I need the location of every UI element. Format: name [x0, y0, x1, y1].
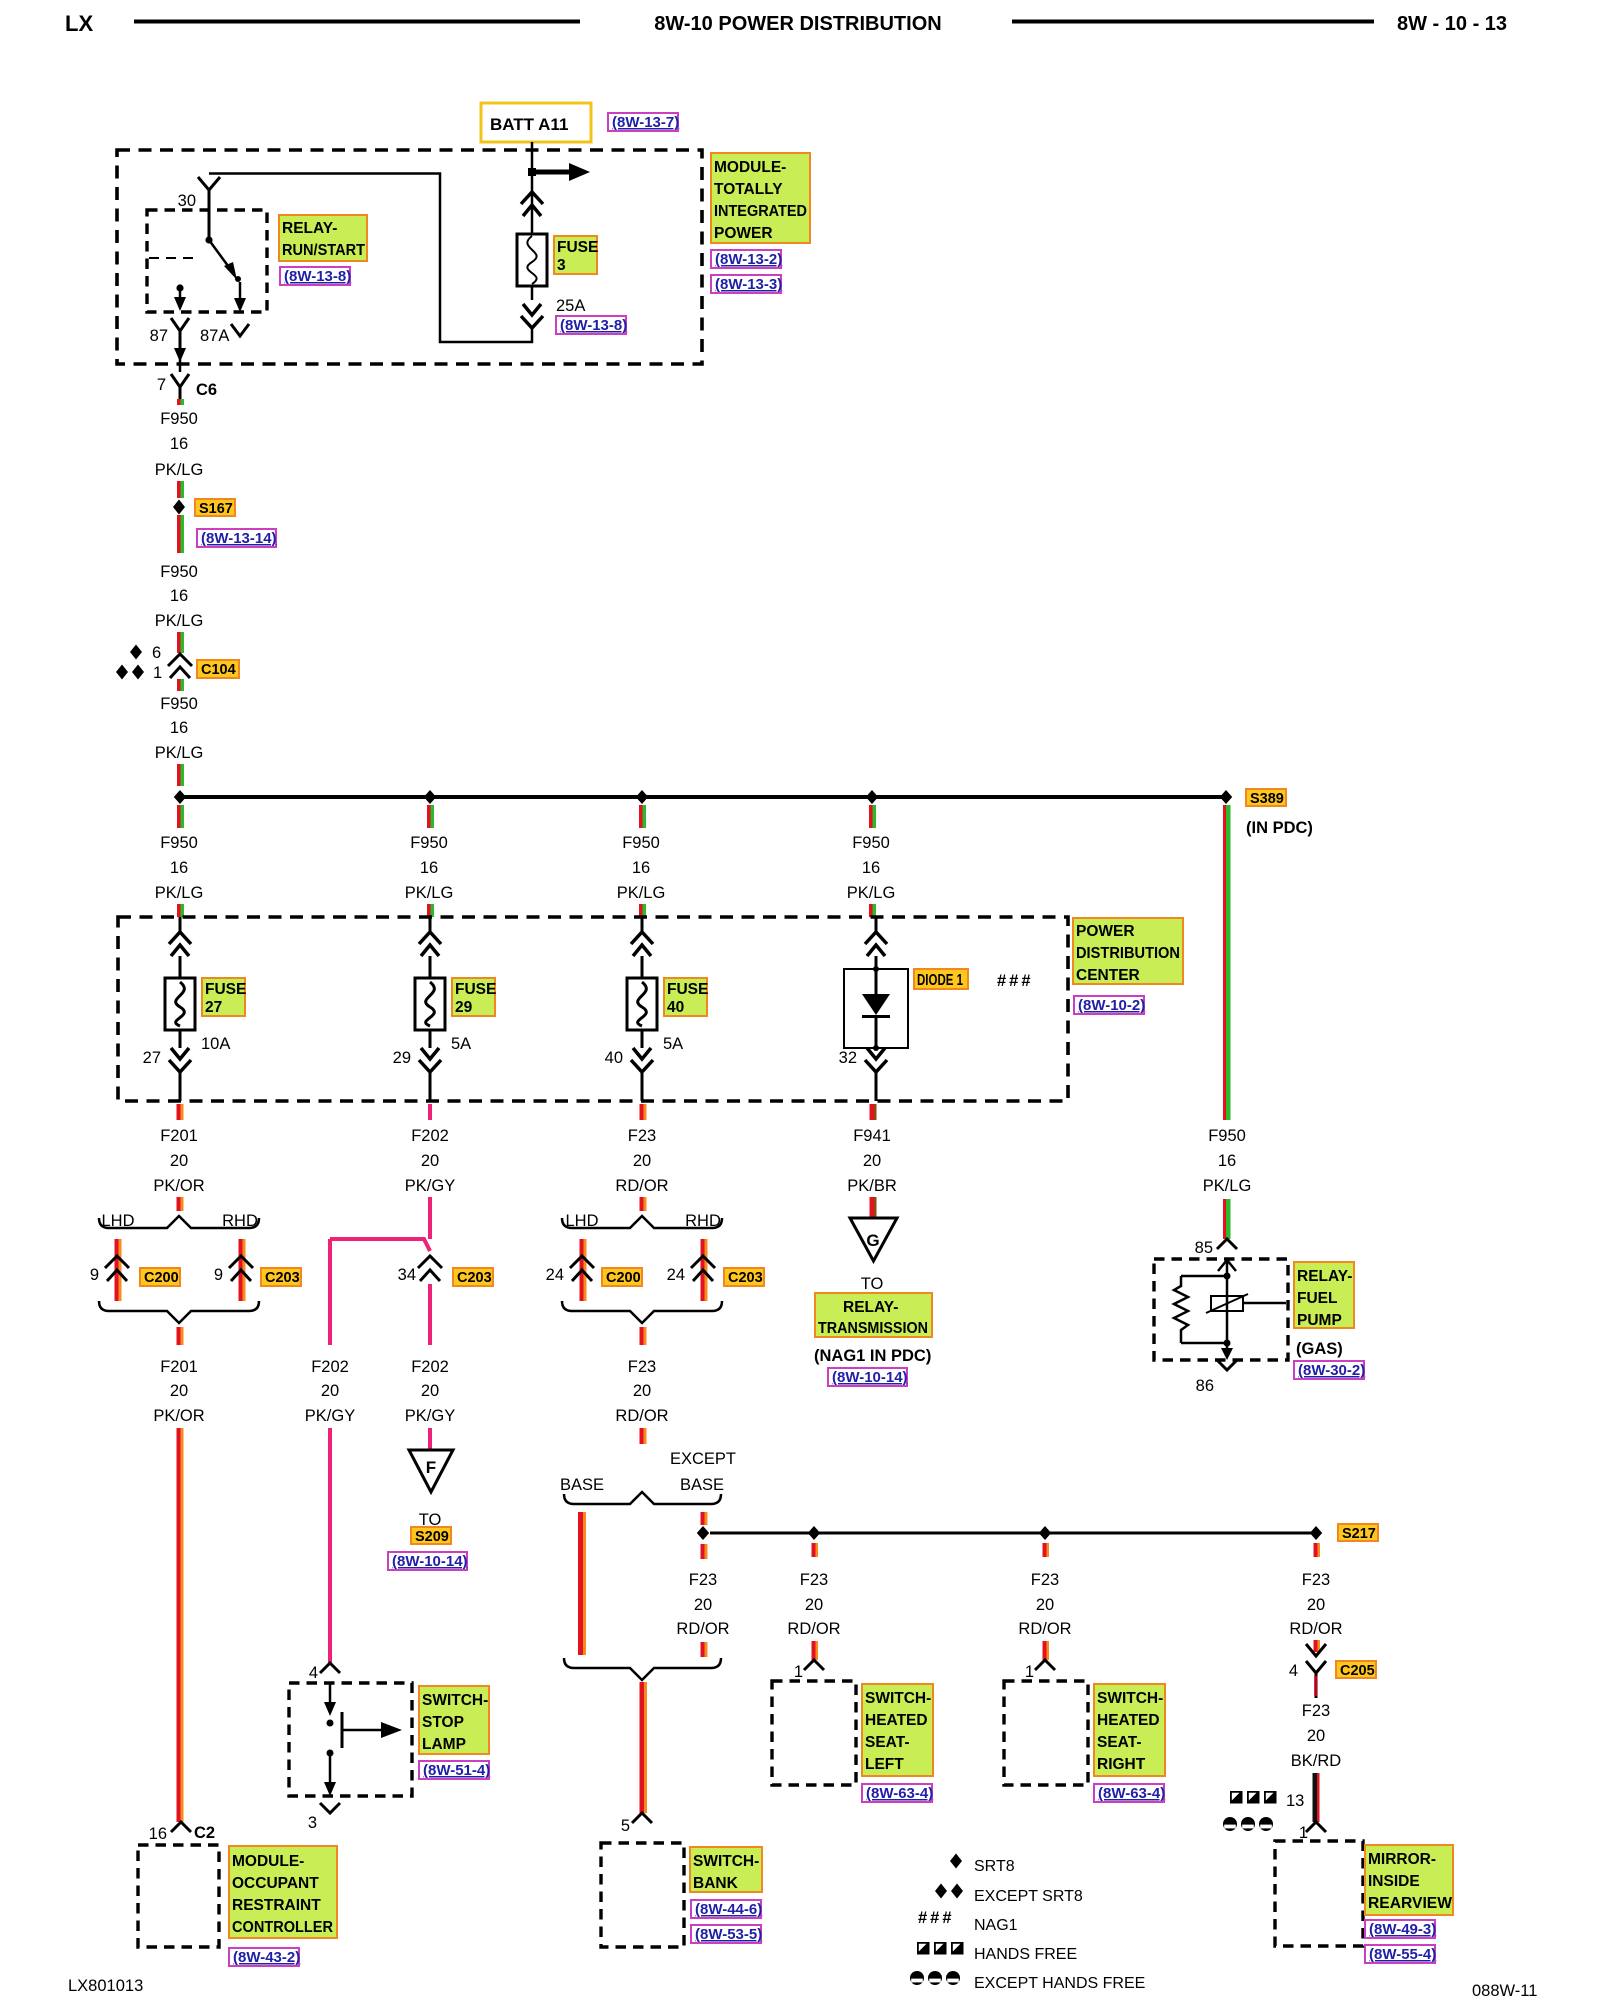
- mirror inside rearview dashed box: [1275, 1841, 1363, 1946]
- fuse F3 symbol: [517, 234, 547, 286]
- wire F950 16 PK/LG segment 2: [155, 515, 204, 653]
- svg-text:S209: S209: [415, 1529, 449, 1545]
- diode 1 branch: [839, 917, 1034, 1101]
- svg-text:S217: S217: [1342, 1526, 1376, 1542]
- svg-text:F23: F23: [689, 1571, 717, 1589]
- svg-text:C104: C104: [201, 662, 236, 678]
- svg-text:EXCEPT SRT8: EXCEPT SRT8: [974, 1888, 1083, 1905]
- svg-text:7: 7: [157, 376, 166, 394]
- battery feed A11 box: [481, 103, 591, 142]
- svg-text:(8W-13-14): (8W-13-14): [201, 530, 277, 547]
- svg-text:3: 3: [557, 257, 566, 274]
- svg-text:F950: F950: [410, 834, 448, 852]
- arrow into connector C205: [1306, 1644, 1326, 1656]
- svg-text:6: 6: [152, 644, 161, 662]
- node at column 1: [174, 790, 186, 804]
- wire F23 20 RD/OR merged: [615, 1327, 668, 1444]
- svg-text:20: 20: [805, 1596, 823, 1614]
- wire F950 drop column 3 above PDC: [617, 805, 666, 917]
- svg-text:(8W-10-14): (8W-10-14): [392, 1553, 468, 1570]
- svg-text:4: 4: [309, 1664, 318, 1682]
- wire F950 drop column 2 above PDC: [405, 805, 454, 917]
- splice bus wire: [180, 795, 1226, 799]
- svg-text:16: 16: [420, 859, 438, 877]
- svg-text:SWITCH-: SWITCH-: [1097, 1690, 1163, 1707]
- wire F950 to fuel pump relay (right side long run): [1203, 805, 1252, 1239]
- svg-text:RD/OR: RD/OR: [1289, 1620, 1342, 1638]
- link 8W-63-4 right: [1094, 1784, 1165, 1802]
- svg-text:INSIDE: INSIDE: [1368, 1873, 1420, 1890]
- wire F941 20 PK/BR below PDC: [847, 1104, 897, 1217]
- svg-text:HEATED: HEATED: [1097, 1712, 1160, 1729]
- svg-text:16: 16: [149, 1825, 167, 1843]
- svg-text:INTEGRATED: INTEGRATED: [714, 203, 807, 220]
- svg-text:(8W-13-8): (8W-13-8): [560, 317, 627, 334]
- svg-text:34: 34: [398, 1266, 416, 1284]
- svg-text:(8W-49-3): (8W-49-3): [1369, 1921, 1436, 1938]
- svg-text:5A: 5A: [663, 1035, 683, 1053]
- svg-text:24: 24: [546, 1266, 564, 1284]
- wire F23 drop to mirror: [1289, 1543, 1342, 1652]
- pin 1 heated seat left: [794, 1660, 824, 1681]
- svg-text:PK/LG: PK/LG: [405, 884, 454, 902]
- wire to switch bank: [640, 1682, 645, 1813]
- svg-text:(8W-43-2): (8W-43-2): [233, 1949, 300, 1966]
- pin 85 fuel pump relay: [1195, 1239, 1237, 1257]
- svg-text:27: 27: [143, 1049, 161, 1067]
- svg-text:RELAY-: RELAY-: [282, 220, 337, 237]
- svg-text:20: 20: [1036, 1596, 1054, 1614]
- svg-text:F941: F941: [853, 1127, 891, 1145]
- svg-text:40: 40: [667, 999, 684, 1016]
- wire junction to fuse 3: [531, 176, 534, 234]
- split brace F23: [562, 1216, 722, 1228]
- svg-text:MODULE-: MODULE-: [714, 159, 786, 176]
- svg-text:EXCEPT HANDS FREE: EXCEPT HANDS FREE: [974, 1975, 1145, 1992]
- svg-text:(8W-10-2): (8W-10-2): [1078, 997, 1145, 1014]
- svg-text:16: 16: [1218, 1152, 1236, 1170]
- wire F201 20 PK/OR merged: [153, 1327, 204, 1822]
- svg-text:POWER: POWER: [1076, 923, 1135, 940]
- svg-text:F950: F950: [160, 834, 198, 852]
- arrow feed to module internals: [532, 163, 590, 181]
- svg-text:30: 30: [178, 192, 196, 210]
- svg-text:F23: F23: [1031, 1571, 1059, 1589]
- link 8W-10-14 (S209): [388, 1552, 468, 1570]
- svg-text:F23: F23: [1302, 1702, 1330, 1720]
- merge brace to switch bank: [564, 1658, 721, 1680]
- svg-text:RUN/START: RUN/START: [282, 242, 365, 259]
- splice S217 bus wire: [710, 1532, 1316, 1535]
- svg-text:088W-11: 088W-11: [1472, 1982, 1537, 2000]
- svg-text:3: 3: [308, 1814, 317, 1832]
- marker except hands free pin 1: [1223, 1817, 1308, 1842]
- wire F23 drop to heated seat right: [1018, 1543, 1071, 1660]
- link 8W-49-3: [1365, 1920, 1436, 1938]
- marker SRT8 pin 6: [130, 644, 161, 662]
- link 8W-43-2: [229, 1948, 300, 1966]
- link 8W-13-2: [711, 250, 782, 268]
- relay switch blade to 87A: [209, 240, 246, 312]
- svg-text:PK/LG: PK/LG: [617, 884, 666, 902]
- svg-text:1: 1: [794, 1663, 803, 1681]
- svg-text:SWITCH-: SWITCH-: [693, 1853, 759, 1870]
- switch heated seat left dashed box: [772, 1681, 856, 1785]
- svg-text:40: 40: [605, 1049, 623, 1067]
- svg-text:BK/RD: BK/RD: [1291, 1752, 1342, 1770]
- svg-text:F950: F950: [160, 563, 198, 581]
- svg-text:HEATED: HEATED: [865, 1712, 928, 1729]
- svg-text:F201: F201: [160, 1127, 198, 1145]
- merge brace F201: [99, 1301, 259, 1323]
- svg-text:5A: 5A: [451, 1035, 471, 1053]
- link 8W-44-6: [691, 1900, 762, 1918]
- relay RUN/START dashed box: [147, 210, 267, 312]
- svg-text:C203: C203: [457, 1270, 492, 1286]
- off-page triangle F: [409, 1450, 453, 1492]
- svg-text:C2: C2: [194, 1824, 215, 1842]
- svg-text:RD/OR: RD/OR: [676, 1620, 729, 1638]
- svg-text:LAMP: LAMP: [422, 1736, 466, 1753]
- svg-text:EXCEPT: EXCEPT: [670, 1450, 736, 1468]
- svg-text:(8W-63-4): (8W-63-4): [1098, 1785, 1165, 1802]
- module TIPM dashed box: [117, 150, 702, 364]
- pin 16 connector C2: [149, 1822, 215, 1843]
- link 8W-13-14: [197, 529, 277, 547]
- svg-text:RELAY-: RELAY-: [843, 1299, 898, 1316]
- connector C203 pin 24: [667, 1256, 764, 1286]
- node S217 branch junction: [697, 1526, 709, 1540]
- label SWITCH-BANK: [690, 1847, 762, 1892]
- wire fuse 3 bottom: [531, 286, 534, 300]
- label RELAY-TRANSMISSION: [815, 1293, 932, 1337]
- svg-text:DIODE 1: DIODE 1: [917, 972, 963, 989]
- switch bank dashed box: [601, 1843, 684, 1947]
- svg-text:20: 20: [321, 1382, 339, 1400]
- wire F950 drop column 4 above PDC: [847, 805, 896, 917]
- label SWITCH-HEATED SEAT-RIGHT: [1094, 1684, 1165, 1776]
- svg-text:F950: F950: [160, 695, 198, 713]
- label RELAY-FUEL PUMP: [1294, 1262, 1354, 1329]
- pin 4 stop lamp switch: [309, 1663, 340, 1682]
- svg-text:PK/GY: PK/GY: [405, 1407, 455, 1425]
- pin 1 heated seat right: [1025, 1660, 1055, 1681]
- svg-text:25A: 25A: [556, 297, 585, 315]
- link 8W-53-5: [691, 1925, 762, 1943]
- off-page triangle G: [850, 1218, 897, 1261]
- link 8W-51-4: [419, 1761, 490, 1779]
- connector C205 pin 4: [1289, 1661, 1376, 1698]
- svg-text:PK/LG: PK/LG: [155, 461, 204, 479]
- svg-text:86: 86: [1196, 1377, 1214, 1395]
- fuse 40 branch: [605, 917, 709, 1101]
- svg-text:F23: F23: [628, 1358, 656, 1376]
- svg-text:MODULE-: MODULE-: [232, 1853, 304, 1870]
- split brace F201: [99, 1216, 259, 1228]
- svg-text:RIGHT: RIGHT: [1097, 1756, 1146, 1773]
- svg-text:(IN PDC): (IN PDC): [1246, 819, 1313, 837]
- svg-text:###: ###: [918, 1909, 955, 1927]
- wire F201 LHD branch: [115, 1239, 119, 1301]
- svg-text:S389: S389: [1250, 791, 1284, 807]
- svg-text:F950: F950: [852, 834, 890, 852]
- svg-text:16: 16: [170, 587, 188, 605]
- svg-text:F: F: [426, 1458, 436, 1477]
- svg-text:FUSE: FUSE: [667, 981, 708, 998]
- svg-text:C205: C205: [1340, 1663, 1375, 1679]
- svg-text:C203: C203: [265, 1270, 300, 1286]
- wire F202 right leg to triangle F: [405, 1284, 455, 1451]
- svg-text:(8W-10-14): (8W-10-14): [832, 1369, 908, 1386]
- split brace BASE/EXCEPT BASE: [564, 1492, 721, 1504]
- svg-text:TRANSMISSION: TRANSMISSION: [818, 1320, 928, 1337]
- legend SRT8: [950, 1854, 1015, 1876]
- svg-text:F23: F23: [628, 1127, 656, 1145]
- svg-text:MIRROR-: MIRROR-: [1368, 1851, 1436, 1868]
- wire EXCEPT BASE branch dashed upper: [701, 1512, 705, 1525]
- svg-text:POWER: POWER: [714, 225, 773, 242]
- relay fuel pump internals: [1174, 1260, 1286, 1360]
- label MIRROR-INSIDE REARVIEW: [1365, 1845, 1453, 1915]
- svg-text:F23: F23: [800, 1571, 828, 1589]
- svg-text:5: 5: [621, 1817, 630, 1835]
- relay coil dashed stub: [149, 257, 200, 259]
- power distribution center dashed box: [118, 917, 1068, 1101]
- svg-text:27: 27: [205, 999, 222, 1016]
- svg-text:DISTRIBUTION: DISTRIBUTION: [1076, 945, 1180, 962]
- svg-text:LX801013: LX801013: [68, 1977, 143, 1995]
- module occupant restraint controller dashed box: [138, 1845, 219, 1947]
- svg-text:1: 1: [153, 664, 162, 682]
- svg-text:20: 20: [694, 1596, 712, 1614]
- svg-text:PK/OR: PK/OR: [153, 1177, 204, 1195]
- svg-text:NAG1: NAG1: [974, 1917, 1018, 1934]
- wire 87 to C6: [179, 356, 182, 372]
- svg-text:20: 20: [170, 1152, 188, 1170]
- svg-text:C200: C200: [606, 1270, 641, 1286]
- svg-text:BATT A11: BATT A11: [490, 115, 568, 134]
- svg-text:(8W-13-7): (8W-13-7): [612, 114, 679, 131]
- link 8W-10-2: [1074, 996, 1145, 1014]
- wire F23 20 RD/OR below PDC: [615, 1104, 668, 1211]
- wire F201 RHD branch: [239, 1239, 243, 1301]
- svg-text:16: 16: [170, 719, 188, 737]
- svg-text:(NAG1 IN PDC): (NAG1 IN PDC): [814, 1347, 931, 1365]
- wire EXCEPT BASE dashed segment 2: [701, 1544, 705, 1559]
- svg-text:SWITCH-: SWITCH-: [422, 1692, 488, 1709]
- svg-text:###: ###: [997, 972, 1034, 990]
- svg-text:F202: F202: [311, 1358, 349, 1376]
- svg-text:FUEL: FUEL: [1297, 1290, 1337, 1307]
- relay fuel pump dashed box: [1154, 1259, 1288, 1360]
- splice S217 end node: [1310, 1526, 1322, 1540]
- svg-text:(8W-13-3): (8W-13-3): [715, 276, 782, 293]
- svg-text:(8W-13-2): (8W-13-2): [715, 251, 782, 268]
- wire F23 20 RD/OR except base labels: [676, 1571, 729, 1657]
- svg-text:29: 29: [393, 1049, 411, 1067]
- wire BASE branch (thick): [578, 1512, 583, 1655]
- splice S389 node: [1220, 790, 1232, 804]
- svg-text:20: 20: [170, 1382, 188, 1400]
- label S217: [1338, 1524, 1378, 1542]
- svg-text:20: 20: [863, 1152, 881, 1170]
- link 8W-30-2: [1294, 1361, 1365, 1379]
- wire F23 RHD branch: [701, 1239, 705, 1301]
- legend NAG1: [918, 1909, 1018, 1934]
- label POWER DISTRIBUTION CENTER: [1073, 918, 1183, 984]
- connector C200 pin 9: [90, 1256, 180, 1286]
- svg-text:OCCUPANT: OCCUPANT: [232, 1875, 319, 1892]
- wire F202 branch tee: [330, 1239, 430, 1251]
- link 8W-13-8 relay: [280, 267, 351, 285]
- wire F950 16 PK/LG segment 1: [155, 399, 204, 498]
- svg-text:HANDS FREE: HANDS FREE: [974, 1946, 1077, 1963]
- label MODULE-TOTALLY INTEGRATED POWER: [711, 153, 810, 243]
- svg-text:PK/LG: PK/LG: [1203, 1177, 1252, 1195]
- svg-text:PK/OR: PK/OR: [153, 1407, 204, 1425]
- svg-text:PUMP: PUMP: [1297, 1312, 1342, 1329]
- legend EXCEPT SRT8: [935, 1884, 1083, 1906]
- relay contact common post: [205, 236, 212, 243]
- svg-text:(8W-30-2): (8W-30-2): [1298, 1362, 1365, 1379]
- svg-text:16: 16: [632, 859, 650, 877]
- marker hands free pin 13: [1230, 1791, 1304, 1810]
- svg-text:FUSE: FUSE: [455, 981, 496, 998]
- pin 5 switch bank: [621, 1813, 652, 1835]
- svg-text:20: 20: [1307, 1727, 1325, 1745]
- svg-text:REARVIEW: REARVIEW: [1368, 1895, 1452, 1912]
- svg-text:16: 16: [170, 859, 188, 877]
- svg-text:13: 13: [1286, 1792, 1304, 1810]
- svg-text:PK/LG: PK/LG: [155, 744, 204, 762]
- svg-text:F201: F201: [160, 1358, 198, 1376]
- svg-text:16: 16: [170, 435, 188, 453]
- label SWITCH-HEATED SEAT-LEFT: [862, 1684, 933, 1776]
- svg-text:F950: F950: [1208, 1127, 1246, 1145]
- svg-text:4: 4: [1289, 1662, 1298, 1680]
- link 8W-63-4 left: [862, 1784, 933, 1802]
- link 8W-13-3: [711, 275, 782, 293]
- svg-text:20: 20: [421, 1152, 439, 1170]
- pin 87 connector: [171, 318, 189, 352]
- svg-text:BASE: BASE: [560, 1476, 604, 1494]
- wire F23 drop to heated seat left: [787, 1543, 840, 1660]
- header: [65, 11, 1507, 36]
- svg-text:PK/BR: PK/BR: [847, 1177, 897, 1195]
- switch heated seat right dashed box: [1004, 1681, 1088, 1785]
- svg-text:BASE: BASE: [680, 1476, 724, 1494]
- svg-text:F202: F202: [411, 1358, 449, 1376]
- svg-text:TO: TO: [861, 1275, 884, 1293]
- svg-text:F950: F950: [160, 410, 198, 428]
- wire F202 left leg to stop lamp switch: [305, 1239, 355, 1663]
- connector chevrons above fuse 3: [521, 192, 543, 216]
- pin 3 stop lamp switch: [308, 1803, 340, 1832]
- svg-text:LX: LX: [65, 11, 93, 36]
- svg-text:87: 87: [150, 327, 168, 345]
- switch stop lamp internals: [324, 1683, 402, 1796]
- svg-text:STOP: STOP: [422, 1714, 464, 1731]
- wire F950 drop column 1 above PDC: [155, 805, 204, 917]
- svg-text:SEAT-: SEAT-: [865, 1734, 910, 1751]
- legend EXCEPT HANDS FREE: [910, 1971, 1145, 1992]
- svg-text:(8W-44-6): (8W-44-6): [695, 1901, 762, 1918]
- legend HANDS FREE: [917, 1942, 1077, 1963]
- svg-text:RD/OR: RD/OR: [615, 1177, 668, 1195]
- svg-text:(8W-53-5): (8W-53-5): [695, 1926, 762, 1943]
- node junction at A11 feed: [528, 168, 536, 176]
- svg-text:16: 16: [862, 859, 880, 877]
- link 8W-10-14 (transmission): [828, 1368, 908, 1386]
- svg-text:G: G: [866, 1231, 879, 1250]
- svg-text:SRT8: SRT8: [974, 1858, 1015, 1875]
- svg-text:CENTER: CENTER: [1076, 967, 1140, 984]
- label FUSE 3: [554, 236, 598, 274]
- link 8W-13-7: [608, 113, 679, 131]
- node at column 3: [636, 790, 648, 804]
- svg-text:PK/GY: PK/GY: [305, 1407, 355, 1425]
- pin 30 connector: [198, 177, 220, 240]
- svg-text:F23: F23: [1302, 1571, 1330, 1589]
- svg-text:SEAT-: SEAT-: [1097, 1734, 1142, 1751]
- node at column 2: [424, 790, 436, 804]
- fuse 29 branch: [393, 917, 497, 1101]
- connector C203 pin 9: [214, 1256, 301, 1286]
- fuse 27 branch: [143, 917, 247, 1101]
- wire F201 20 PK/OR below PDC: [153, 1104, 204, 1211]
- connector chevrons below fuse 3: [521, 304, 543, 328]
- label SWITCH-STOP LAMP: [419, 1686, 489, 1754]
- svg-text:85: 85: [1195, 1239, 1213, 1257]
- svg-text:10A: 10A: [201, 1035, 230, 1053]
- connector C104: [168, 654, 239, 678]
- svg-text:FUSE: FUSE: [205, 981, 246, 998]
- wire F23 LHD branch: [580, 1239, 584, 1301]
- marker EXCEPT SRT8 pin 1: [116, 664, 162, 682]
- svg-text:(GAS): (GAS): [1296, 1340, 1343, 1358]
- label S389: [1246, 789, 1286, 807]
- svg-text:C6: C6: [196, 381, 217, 399]
- svg-text:(8W-51-4): (8W-51-4): [423, 1762, 490, 1779]
- svg-text:1: 1: [1025, 1663, 1034, 1681]
- svg-text:PK/LG: PK/LG: [155, 884, 204, 902]
- svg-text:20: 20: [633, 1152, 651, 1170]
- node at column 4: [866, 790, 878, 804]
- svg-text:F950: F950: [622, 834, 660, 852]
- switch stop lamp dashed box: [289, 1683, 412, 1796]
- wire battery A11 down into TIPM: [531, 142, 534, 172]
- svg-text:20: 20: [633, 1382, 651, 1400]
- svg-text:PK/LG: PK/LG: [847, 884, 896, 902]
- wire fuse 3 to relay pin 30: [209, 174, 532, 343]
- connector C6: [171, 374, 217, 399]
- pin 87A connector: [231, 324, 249, 336]
- svg-text:SWITCH-: SWITCH-: [865, 1690, 931, 1707]
- relay 87 contact post: [174, 284, 186, 311]
- svg-text:(8W-13-8): (8W-13-8): [284, 268, 351, 285]
- link 8W-55-4: [1365, 1945, 1436, 1963]
- svg-text:RESTRAINT: RESTRAINT: [232, 1897, 321, 1914]
- link 8W-13-8 fuse: [556, 316, 627, 334]
- splice S167: [173, 499, 235, 517]
- svg-text:PK/LG: PK/LG: [155, 612, 204, 630]
- svg-text:87A: 87A: [200, 327, 229, 345]
- svg-text:29: 29: [455, 999, 473, 1016]
- connector C200 pin 24: [546, 1256, 642, 1286]
- svg-text:9: 9: [214, 1266, 223, 1284]
- svg-text:PK/GY: PK/GY: [405, 1177, 455, 1195]
- svg-text:20: 20: [421, 1382, 439, 1400]
